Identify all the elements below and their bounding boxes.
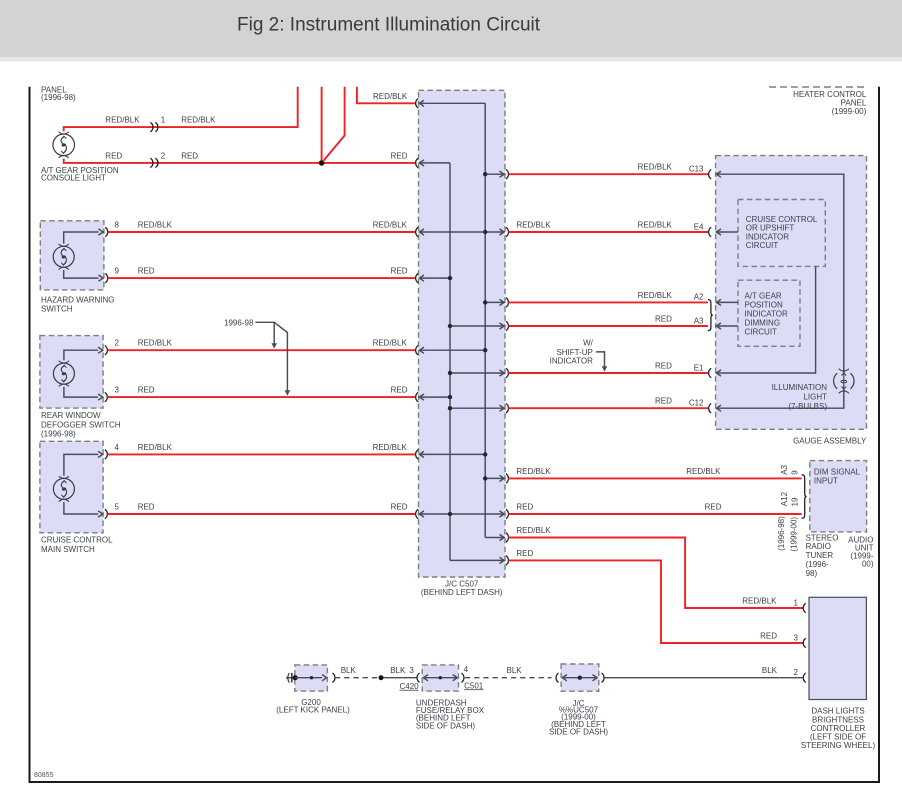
wire RED console light to J/C C507 pin (via connector 2) [64, 159, 416, 163]
svg-text:9: 9 [115, 267, 120, 276]
svg-text:REAR WINDOW: REAR WINDOW [41, 411, 101, 420]
svg-text:A2: A2 [694, 293, 704, 302]
svg-text:INDICATOR: INDICATOR [745, 310, 788, 319]
wire RED defogger pin 3 to J/C [105, 392, 108, 401]
svg-text:RED: RED [391, 151, 408, 160]
svg-text:INPUT: INPUT [814, 477, 838, 486]
wire RED J/C to controller pin 3 [509, 560, 804, 643]
svg-text:C13: C13 [689, 165, 704, 174]
svg-text:BLK: BLK [762, 666, 778, 675]
svg-text:SIDE OF DASH): SIDE OF DASH) [549, 727, 608, 736]
J/C internal RED/BLK bus [484, 103, 486, 537]
svg-text:(7-BULBS): (7-BULBS) [788, 402, 827, 411]
svg-text:BLK: BLK [390, 666, 406, 675]
gauge internal wire A2 [716, 301, 738, 303]
wire red riser from top 2 [321, 87, 323, 161]
svg-text:RED/BLK: RED/BLK [373, 92, 408, 101]
ground G200 symbol [286, 677, 295, 679]
svg-text:1996-98: 1996-98 [224, 318, 254, 327]
svg-text:3: 3 [115, 386, 120, 395]
svg-text:RED: RED [138, 503, 155, 512]
svg-text:LIGHT: LIGHT [803, 392, 827, 401]
svg-text:2: 2 [161, 151, 166, 160]
svg-text:A/T GEAR: A/T GEAR [745, 292, 782, 301]
svg-text:3: 3 [409, 666, 414, 675]
wire RED/BLK hazard pin 8 to J/C [105, 227, 108, 236]
svg-text:9: 9 [790, 470, 799, 475]
svg-text:2: 2 [115, 339, 120, 348]
svg-text:RED: RED [516, 549, 533, 558]
J/C left pin wire p7 [420, 453, 486, 455]
svg-text:8: 8 [115, 221, 120, 230]
svg-text:(1999-00): (1999-00) [832, 107, 867, 116]
svg-text:RED/BLK: RED/BLK [516, 221, 551, 230]
svg-text:RADIO: RADIO [806, 542, 831, 551]
svg-text:C12: C12 [689, 399, 704, 408]
svg-text:4: 4 [115, 443, 120, 452]
svg-text:98): 98) [806, 569, 818, 578]
svg-text:RED/BLK: RED/BLK [373, 221, 408, 230]
component CRUISE CONTROL MAIN SWITCH [40, 441, 103, 533]
header bar [0, 0, 902, 57]
wire BLK dashed C501 to J/C UC507 [465, 677, 552, 679]
heater control panel (clipped box edge) [769, 86, 867, 88]
svg-text:SWITCH: SWITCH [41, 305, 73, 314]
wire RED/BLK J/C to gauge pin E4 [509, 231, 709, 233]
svg-text:BLK: BLK [507, 666, 523, 675]
svg-text:CIRCUIT: CIRCUIT [746, 241, 779, 250]
svg-text:PANEL: PANEL [841, 99, 867, 108]
component REAR WINDOW DEFOGGER SWITCH (1996-98) [40, 336, 103, 409]
svg-text:POSITION: POSITION [745, 301, 783, 310]
svg-text:(1996-: (1996- [806, 560, 829, 569]
svg-text:SHIFT-UP: SHIFT-UP [556, 348, 592, 357]
J/C right edge pin sockets [506, 170, 509, 179]
wire RED J/C to gauge pin C12 [509, 407, 709, 409]
svg-text:GAUGE ASSEMBLY: GAUGE ASSEMBLY [793, 437, 867, 446]
svg-text:RED/BLK: RED/BLK [638, 163, 673, 172]
svg-text:RED: RED [655, 315, 672, 324]
J/C internal RED bus [449, 163, 451, 561]
svg-text:OR UPSHIFT: OR UPSHIFT [746, 224, 795, 233]
wire RED/BLK J/C to gauge pin C13 [509, 173, 709, 175]
svg-text:RED/BLK: RED/BLK [638, 291, 673, 300]
svg-text:RED/BLK: RED/BLK [138, 443, 173, 452]
inner circuit CRUISE CONTROL OR UPSHIFT INDICATOR CIRCUIT [738, 200, 825, 267]
svg-text:A3: A3 [694, 316, 704, 325]
svg-text:BLK: BLK [341, 666, 357, 675]
J/C right pin wire r4 [450, 325, 504, 327]
component J/C %%UC507 [561, 664, 599, 691]
svg-text:RED/BLK: RED/BLK [138, 339, 173, 348]
svg-text:1: 1 [794, 598, 799, 607]
svg-text:RED/BLK: RED/BLK [516, 526, 551, 535]
wire RED cruise pin 5 to J/C [105, 509, 108, 518]
svg-text:80855: 80855 [34, 772, 54, 779]
svg-text:RED: RED [138, 386, 155, 395]
inline connector 2 [150, 158, 153, 167]
svg-text:TUNER: TUNER [806, 551, 834, 560]
gauge internal wire E4 to cruise circuit [716, 231, 738, 233]
svg-text:C420: C420 [400, 682, 420, 691]
wire RED/BLK cruise pin 4 to J/C [105, 450, 108, 459]
junction on RED wire [319, 160, 325, 166]
svg-text:CONSOLE LIGHT: CONSOLE LIGHT [41, 174, 106, 183]
svg-text:DIMMING: DIMMING [745, 319, 781, 328]
J/C right pin wire r1 [485, 173, 504, 175]
svg-text:ILLUMINATION: ILLUMINATION [772, 383, 828, 392]
svg-text:2: 2 [794, 668, 799, 677]
wire RED J/C to stereo pin A12/19 [509, 513, 802, 515]
svg-text:E4: E4 [694, 222, 704, 231]
component DASH LIGHTS BRIGHTNESS CONTROLLER [809, 597, 866, 699]
svg-text:(1999-00): (1999-00) [789, 517, 798, 552]
J/C right pin wire r5 [450, 372, 504, 374]
svg-text:(1996-98): (1996-98) [41, 430, 76, 439]
J/C left pin wire p5 [420, 349, 486, 351]
gauge internal wire A3 [716, 325, 738, 327]
J/C left pin wire p1 [420, 102, 486, 104]
svg-text:RED: RED [391, 503, 408, 512]
svg-text:E1: E1 [694, 363, 704, 372]
wire RED/BLK J/C to stereo dim signal pin A3/9 [509, 477, 802, 479]
wire BLK splice to C420 [384, 677, 418, 679]
gauge internal wire C12 to illumination light [716, 389, 843, 408]
gauge internal wire E1 to cruise circuit bottom [716, 267, 815, 374]
svg-text:MAIN SWITCH: MAIN SWITCH [41, 545, 95, 554]
inline connector 1 [150, 122, 153, 131]
connector C501 [461, 673, 464, 682]
svg-text:Fig 2: Instrument Illumination: Fig 2: Instrument Illumination Circuit [237, 15, 541, 36]
svg-text:CRUISE CONTROL: CRUISE CONTROL [41, 536, 113, 545]
J/C left pin wire p4 [420, 277, 451, 279]
svg-text:RED/BLK: RED/BLK [105, 115, 140, 124]
wire RED J/C to gauge pin A3 [509, 325, 709, 327]
svg-text:A12: A12 [780, 491, 789, 506]
svg-text:J/C C507: J/C C507 [445, 579, 479, 588]
svg-text:RED/BLK: RED/BLK [373, 443, 408, 452]
svg-text:3: 3 [794, 633, 799, 642]
J/C right pin wire r7 [485, 477, 504, 479]
wire RED hazard pin 9 to J/C [105, 273, 108, 282]
svg-text:CIRCUIT: CIRCUIT [745, 328, 778, 337]
J/C straight-through row hazard8 to E4 [420, 231, 505, 233]
wire red riser from top 3 with diagonal [323, 87, 345, 162]
svg-text:(BEHIND LEFT DASH): (BEHIND LEFT DASH) [421, 588, 503, 597]
J/C right pin wire r9 (bus corner) [485, 537, 504, 539]
component UNDERDASH FUSE/RELAY BOX [422, 665, 458, 691]
svg-text:INDICATOR: INDICATOR [550, 357, 593, 366]
svg-text:RED: RED [705, 503, 722, 512]
svg-text:RED/BLK: RED/BLK [686, 467, 721, 476]
gauge single pin sockets [709, 170, 712, 179]
J/C right pin wire r10 (bus corner) [450, 559, 504, 561]
svg-text:RED/BLK: RED/BLK [181, 115, 216, 124]
wire RED/BLK J/C to gauge pin A2 [509, 301, 709, 303]
controller pin sockets [803, 603, 806, 612]
J/C UC507 socket left [556, 673, 559, 682]
svg-text:A3: A3 [780, 464, 789, 474]
svg-text:RED/BLK: RED/BLK [516, 467, 551, 476]
svg-text:C501: C501 [464, 681, 484, 690]
J/C left pin wire p6 [420, 396, 451, 398]
svg-text:RED/BLK: RED/BLK [742, 597, 777, 606]
J/C left edge pin sockets [416, 99, 419, 108]
J/C left pin wire p2 [420, 162, 451, 164]
svg-text:5: 5 [115, 503, 120, 512]
svg-text:STEREO: STEREO [806, 533, 839, 542]
svg-text:W/: W/ [583, 338, 594, 347]
svg-text:RED/BLK: RED/BLK [138, 221, 173, 230]
J/C right pin wire r3 [485, 301, 504, 303]
wire BLK UC507 to controller pin 2 [604, 677, 803, 679]
svg-text:RED: RED [655, 397, 672, 406]
component HAZARD WARNING SWITCH [40, 221, 104, 290]
component G200 (LEFT KICK PANEL) [295, 665, 328, 691]
svg-text:RED: RED [391, 386, 408, 395]
svg-text:HAZARD WARNING: HAZARD WARNING [41, 295, 114, 304]
svg-text:1: 1 [161, 115, 166, 124]
svg-text:RED: RED [655, 362, 672, 371]
svg-text:RED: RED [760, 632, 777, 641]
svg-text:RED: RED [391, 267, 408, 276]
svg-text:DIM SIGNAL: DIM SIGNAL [814, 468, 861, 477]
wire RED/BLK defogger pin 2 to J/C [105, 346, 108, 355]
junction connector J/C C507 (BEHIND LEFT DASH) [419, 90, 506, 577]
svg-text:(LEFT KICK PANEL): (LEFT KICK PANEL) [276, 706, 350, 715]
svg-text:DEFOGGER SWITCH: DEFOGGER SWITCH [41, 421, 121, 430]
stereo pin brace [802, 475, 807, 519]
svg-text:RED: RED [181, 151, 198, 160]
svg-text:(1996-98): (1996-98) [777, 516, 786, 551]
svg-text:RED/BLK: RED/BLK [373, 339, 408, 348]
lamp ILLUMINATION LIGHT (7-BULBS) [834, 369, 854, 394]
svg-text:INDICATOR: INDICATOR [746, 232, 789, 241]
gauge internal wire C13 to illumination light [716, 174, 843, 373]
svg-text:(1996-98): (1996-98) [41, 93, 76, 102]
UC507 socket right [602, 673, 605, 682]
wire RED/BLK console light to top (via connector 1) [64, 87, 298, 131]
svg-text:19: 19 [790, 497, 799, 506]
svg-text:00): 00) [862, 559, 874, 568]
inner circuit A/T GEAR POSITION INDICATOR DIMMING CIRCUIT [738, 280, 800, 346]
svg-text:RED: RED [516, 503, 533, 512]
svg-text:RED/BLK: RED/BLK [638, 221, 673, 230]
gauge pin brace A2/A3 [708, 300, 713, 331]
component DIM SIGNAL INPUT box [810, 461, 867, 532]
G200 socket [332, 673, 335, 682]
svg-text:STEERING WHEEL): STEERING WHEEL) [801, 741, 876, 750]
svg-text:CRUISE CONTROL: CRUISE CONTROL [746, 215, 818, 224]
wire RED/BLK riser from top to J/C pin [357, 87, 416, 104]
component GAUGE ASSEMBLY [716, 156, 867, 430]
svg-text:RED: RED [105, 151, 122, 160]
svg-text:4: 4 [464, 665, 469, 674]
J/C right pin wire r6 [450, 407, 504, 409]
wire BLK dashed G200 to C420 [335, 677, 378, 679]
svg-text:SIDE OF DASH): SIDE OF DASH) [416, 721, 475, 730]
wire RED/BLK J/C to controller pin 1 [509, 538, 804, 609]
wire RED J/C to gauge pin E1 [509, 372, 709, 374]
lamp A/T GEAR POSITION CONSOLE LIGHT [53, 132, 75, 158]
J/C straight-through row cruise5 to stereo [420, 513, 505, 515]
splice dot [379, 675, 384, 680]
svg-text:RED: RED [138, 267, 155, 276]
